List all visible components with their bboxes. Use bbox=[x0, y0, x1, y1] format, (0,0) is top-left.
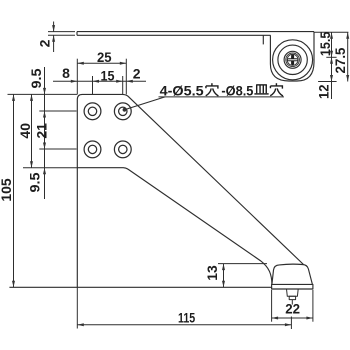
svg-text:115: 115 bbox=[178, 309, 195, 325]
svg-text:13: 13 bbox=[204, 265, 220, 281]
svg-text:25: 25 bbox=[97, 49, 112, 65]
dim 40 line bbox=[31, 94, 33, 167]
svg-text:9.5: 9.5 bbox=[28, 68, 44, 88]
svg-text:15: 15 bbox=[101, 67, 115, 83]
ground line bbox=[9, 286, 272, 288]
dim 25 line bbox=[77, 62, 126, 64]
svg-text:40: 40 bbox=[17, 123, 33, 139]
screw pin bbox=[291, 300, 293, 305]
115 arrows bbox=[77, 323, 84, 326]
dim 27.5 line bbox=[347, 32, 349, 81]
top strip bottom line bbox=[77, 34, 271, 36]
screw head outer bbox=[286, 53, 300, 67]
dim 115 line bbox=[77, 324, 291, 326]
kanji sara bbox=[254, 85, 268, 94]
wheel hub washer bbox=[284, 51, 301, 68]
left ext lines bbox=[8, 93, 78, 95]
kanji ana 2 bbox=[270, 83, 283, 96]
right ext lines bbox=[314, 31, 348, 33]
15 arrows bbox=[93, 80, 100, 83]
svg-text:4-Ø5.5: 4-Ø5.5 bbox=[160, 82, 204, 98]
phillips cross bbox=[287, 55, 297, 65]
9.5 bottom arrow bbox=[43, 168, 46, 175]
hole top-left bbox=[84, 103, 131, 158]
leader dot bbox=[123, 108, 127, 112]
dim 105 line bbox=[13, 94, 15, 287]
wheel ring bbox=[278, 45, 307, 74]
thickness arrows bbox=[52, 25, 55, 32]
8 arrow bbox=[71, 80, 78, 83]
svg-text:21: 21 bbox=[33, 123, 49, 139]
wheel housing bbox=[270, 32, 314, 81]
top strip top line bbox=[77, 31, 314, 33]
wheel outer circle bbox=[273, 40, 313, 80]
21 arrows bbox=[43, 111, 46, 118]
svg-text:2: 2 bbox=[37, 39, 53, 47]
dim 15.5/12 line bbox=[331, 32, 333, 99]
dim 9.5/21/9.5 line bbox=[44, 67, 46, 199]
27.5 arrows bbox=[346, 32, 349, 39]
label underline bbox=[159, 96, 285, 98]
screw nut bbox=[287, 289, 299, 296]
svg-text:27.5: 27.5 bbox=[332, 47, 348, 73]
phillips slot highlight bbox=[288, 59, 297, 61]
dim 22 line bbox=[272, 317, 313, 319]
svg-text:9.5: 9.5 bbox=[27, 172, 43, 192]
15.5 arrows bbox=[330, 32, 333, 39]
dim 13 line bbox=[223, 264, 225, 288]
wheel housing hidden edge bbox=[262, 35, 264, 44]
leader line bbox=[125, 97, 165, 110]
front view left edge and top plate bbox=[77, 94, 303, 287]
plate bottom edge and lower diagonal into foot bbox=[77, 168, 272, 285]
svg-text:-Ø8.5: -Ø8.5 bbox=[221, 82, 253, 98]
screw head inner bbox=[287, 54, 298, 65]
hole top-right bbox=[114, 103, 131, 120]
svg-text:15.5: 15.5 bbox=[317, 31, 333, 56]
9.5 top arrow bbox=[43, 88, 46, 95]
top ext lines bbox=[76, 59, 78, 95]
12 arrows bbox=[330, 57, 333, 64]
foot cap bbox=[272, 264, 313, 284]
svg-text:12: 12 bbox=[315, 84, 331, 99]
bottom ext lines bbox=[76, 287, 78, 328]
screw shaft bbox=[289, 296, 295, 299]
40 arrows bbox=[30, 94, 33, 101]
kanji ana 1 bbox=[206, 83, 219, 96]
svg-text:2: 2 bbox=[133, 66, 141, 82]
svg-text:22: 22 bbox=[285, 301, 300, 317]
dim 8/15/2 line bbox=[53, 80, 146, 82]
hole bottom-left bbox=[84, 141, 101, 158]
dim 13 ext bbox=[218, 263, 267, 265]
25 arrows bbox=[77, 62, 84, 65]
2 arrow bbox=[126, 80, 133, 83]
top strip left end bbox=[76, 32, 78, 36]
hole bottom-right bbox=[114, 141, 131, 158]
thickness arrow stems bbox=[53, 22, 55, 32]
svg-text:105: 105 bbox=[0, 178, 14, 202]
13 arrows bbox=[222, 264, 225, 271]
105 arrows bbox=[12, 94, 15, 101]
thickness ext lines bbox=[48, 31, 75, 33]
svg-text:8: 8 bbox=[62, 65, 70, 81]
22 arrows bbox=[272, 317, 279, 320]
foot band bbox=[272, 284, 313, 289]
